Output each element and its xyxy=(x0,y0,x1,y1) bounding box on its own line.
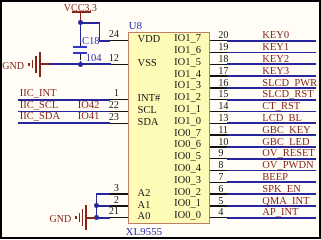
net label IIC_SCL xyxy=(20,101,59,112)
pin 24 stub xyxy=(110,40,128,42)
pin 14 stub xyxy=(210,111,227,113)
wire net KEY3 xyxy=(227,75,316,77)
ground GND label (A pins) xyxy=(50,215,72,225)
net label GBC_KEY xyxy=(262,126,310,137)
net label KEY0 xyxy=(262,31,289,42)
wire net IIC_INT xyxy=(18,99,110,101)
wire A1 horizontal xyxy=(96,205,111,207)
pin 22 stub xyxy=(110,111,128,113)
pin number 18 xyxy=(218,55,228,65)
pin name IO0_7 xyxy=(174,129,201,140)
wire net OV_RESET xyxy=(227,158,316,160)
pin number 6 xyxy=(218,185,223,195)
pin name SDA xyxy=(138,118,159,129)
power VCC3.3 stem xyxy=(80,13,82,21)
net label SLCD_PWR xyxy=(262,79,317,90)
pin name A2 xyxy=(138,189,151,200)
pin 2 stub xyxy=(110,205,128,207)
pin name IO1_4 xyxy=(174,70,201,81)
pin 3 stub xyxy=(110,193,128,195)
wire VDD vertical xyxy=(99,22,101,42)
designator C18 xyxy=(82,37,100,48)
pin number 3 xyxy=(114,184,119,194)
pin number 15 xyxy=(218,90,228,100)
wire net BEEP xyxy=(227,181,316,183)
wire cap to VSS xyxy=(80,61,82,66)
pin 1 stub xyxy=(110,99,128,101)
pin name VSS xyxy=(138,59,157,70)
pin 7 stub xyxy=(210,182,227,184)
pin name SCL xyxy=(138,106,157,117)
pin number 7 xyxy=(218,173,223,183)
pin 11 stub xyxy=(210,134,227,136)
net label SPK_EN xyxy=(262,185,301,196)
net label IO42 xyxy=(78,101,100,112)
junction A1 xyxy=(94,203,99,208)
pin number 1 xyxy=(114,89,119,99)
wire net CT_RST xyxy=(227,111,316,113)
junction A0 xyxy=(94,215,99,220)
pin number 9 xyxy=(218,149,223,159)
pin number 11 xyxy=(218,126,228,136)
pin number 23 xyxy=(109,113,119,123)
wire net KEY0 xyxy=(227,40,316,42)
net label LCD_BL xyxy=(262,114,302,125)
pin number 19 xyxy=(218,43,228,53)
wire net SLCD_PWR xyxy=(227,87,316,89)
pin name IO0_3 xyxy=(174,176,201,187)
pin 19 stub xyxy=(210,52,227,54)
net label KEY1 xyxy=(262,43,289,54)
wire A-group vertical xyxy=(96,193,98,218)
pin 21 stub xyxy=(110,217,128,219)
pin number 2 xyxy=(114,196,119,206)
pin 10 stub xyxy=(210,146,227,148)
junction VCC xyxy=(78,20,83,25)
pin number 4 xyxy=(218,208,223,218)
net label OV_RESET xyxy=(262,149,315,160)
net label SLCD_RST xyxy=(262,90,313,101)
pin 5 stub xyxy=(210,205,227,207)
wire net GBC_LED xyxy=(227,146,316,148)
net label OV_PWDN xyxy=(262,161,313,172)
wire net AP_INT xyxy=(227,217,316,219)
pin 18 stub xyxy=(210,64,227,66)
pin name IO0_4 xyxy=(174,164,201,175)
capacitor C18 pin bottom xyxy=(80,54,82,61)
power VCC3.3 label xyxy=(64,4,97,14)
pin 23 stub xyxy=(110,123,128,125)
ground GND label (VSS) xyxy=(2,62,24,72)
pin name IO0_6 xyxy=(174,140,201,151)
pin number 17 xyxy=(218,67,228,77)
pin name A1 xyxy=(138,201,151,212)
pin number 12 xyxy=(109,54,119,64)
pin 15 stub xyxy=(210,99,227,101)
value 104 xyxy=(86,54,102,65)
designator U8 xyxy=(129,21,142,32)
net label QMA_INT xyxy=(262,197,309,208)
pin number 20 xyxy=(218,31,228,41)
pin number 14 xyxy=(218,102,228,112)
ground symbol (VSS) xyxy=(0,0,321,1)
net label IO41 xyxy=(78,112,100,123)
wire net IIC_SDA xyxy=(18,122,110,124)
wire VCC junction to cap xyxy=(80,22,82,43)
pin number 24 xyxy=(109,30,119,40)
pin name IO0_1 xyxy=(174,199,201,210)
capacitor C18 plate top xyxy=(73,46,87,48)
pin number 22 xyxy=(109,101,119,111)
wire net KEY2 xyxy=(227,63,316,65)
net label IIC_SDA xyxy=(20,112,60,123)
pin 9 stub xyxy=(210,158,227,160)
wire A2 horizontal xyxy=(96,193,111,195)
net label CT_RST xyxy=(262,102,300,113)
pin name IO0_2 xyxy=(174,188,201,199)
wire net IIC_SCL xyxy=(18,111,110,113)
pin name IO0_0 xyxy=(174,211,201,222)
wire net GBC_KEY xyxy=(227,134,316,136)
capacitor C18 plate bottom xyxy=(73,52,87,54)
ground lead (VSS) xyxy=(40,63,51,65)
wire net SPK_EN xyxy=(227,193,316,195)
pin name IO1_6 xyxy=(174,46,201,57)
pin number 8 xyxy=(218,161,223,171)
net label IIC_INT xyxy=(20,89,57,100)
pin number 5 xyxy=(218,197,223,207)
wire A0 horizontal xyxy=(96,217,111,219)
pin 13 stub xyxy=(210,123,227,125)
wire GND to VSS pin xyxy=(50,63,110,65)
pin 8 stub xyxy=(210,170,227,172)
pin name IO1_5 xyxy=(174,58,201,69)
pin name IO1_1 xyxy=(174,105,201,116)
pin name IO1_7 xyxy=(174,34,201,45)
net label GBC_LED xyxy=(262,138,309,149)
pin name VDD xyxy=(138,35,161,46)
pin name IO1_3 xyxy=(174,81,201,92)
wire net QMA_INT xyxy=(227,205,316,207)
junction VSS-cap xyxy=(78,62,83,67)
wire net KEY1 xyxy=(227,52,316,54)
net label AP_INT xyxy=(262,208,298,219)
ground symbol (A pins) xyxy=(0,0,321,1)
pin name IO1_2 xyxy=(174,93,201,104)
pin number 21 xyxy=(109,207,119,217)
part name XL9555 xyxy=(126,227,163,238)
wire VDD horizontal xyxy=(99,40,111,42)
pin 17 stub xyxy=(210,75,227,77)
power VCC3.3 bar symbol xyxy=(72,11,90,13)
pin 4 stub xyxy=(210,217,227,219)
pin name IO0_5 xyxy=(174,152,201,163)
wire VCC horizontal xyxy=(80,22,101,24)
pin name A0 xyxy=(138,212,151,223)
wire net LCD_BL xyxy=(227,122,316,124)
pin name INT# xyxy=(138,94,161,105)
net label KEY3 xyxy=(262,67,289,78)
pin 20 stub xyxy=(210,40,227,42)
pin 12 stub xyxy=(110,64,128,66)
net label BEEP xyxy=(262,173,288,184)
IC U8 XL9555 body xyxy=(128,32,210,224)
pin number 13 xyxy=(218,114,228,124)
pin name IO1_0 xyxy=(174,117,201,128)
capacitor C18 pin top xyxy=(80,43,82,46)
pin 16 stub xyxy=(210,87,227,89)
pin 6 stub xyxy=(210,193,227,195)
pin number 16 xyxy=(218,79,228,89)
wire net OV_PWDN xyxy=(227,170,316,172)
ground lead (A pins) xyxy=(86,217,96,219)
wire net SLCD_RST xyxy=(227,99,316,101)
pin number 10 xyxy=(218,138,228,148)
net label KEY2 xyxy=(262,55,289,66)
